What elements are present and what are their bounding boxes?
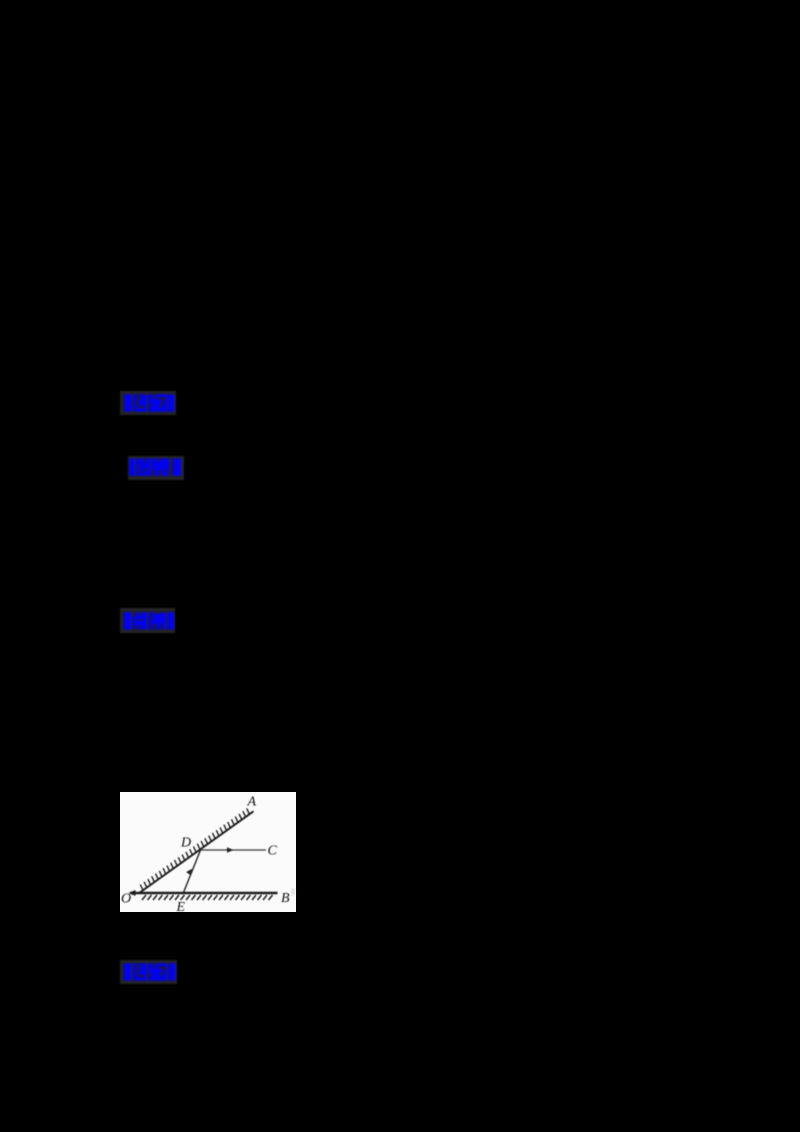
label 4: 【分析】 highlight box bbox=[120, 960, 177, 984]
ray D to C with arrow bbox=[200, 849, 266, 851]
ray E to D with arrow bbox=[183, 850, 200, 893]
svg-text:E: E bbox=[175, 900, 185, 912]
line OB (ground) with left arrow bbox=[130, 891, 278, 893]
diagram image: white box with geometry figure bbox=[120, 792, 297, 912]
svg-text:D: D bbox=[180, 835, 191, 850]
svg-text:O: O bbox=[121, 891, 131, 906]
hatches on OA bbox=[140, 808, 249, 890]
svg-text:C: C bbox=[267, 843, 277, 858]
line OA (mirror) bbox=[139, 811, 253, 893]
light artifact square near B bbox=[291, 888, 295, 895]
label 3: 【点评】 highlight box bbox=[120, 608, 175, 633]
svg-text:A: A bbox=[246, 794, 256, 809]
svg-text:B: B bbox=[281, 891, 290, 906]
label 2: 【解答】 highlight box bbox=[128, 456, 184, 480]
labels bbox=[121, 794, 290, 915]
hatches under OB bbox=[142, 895, 273, 900]
label 1: 【分析】 highlight box bbox=[120, 391, 176, 415]
